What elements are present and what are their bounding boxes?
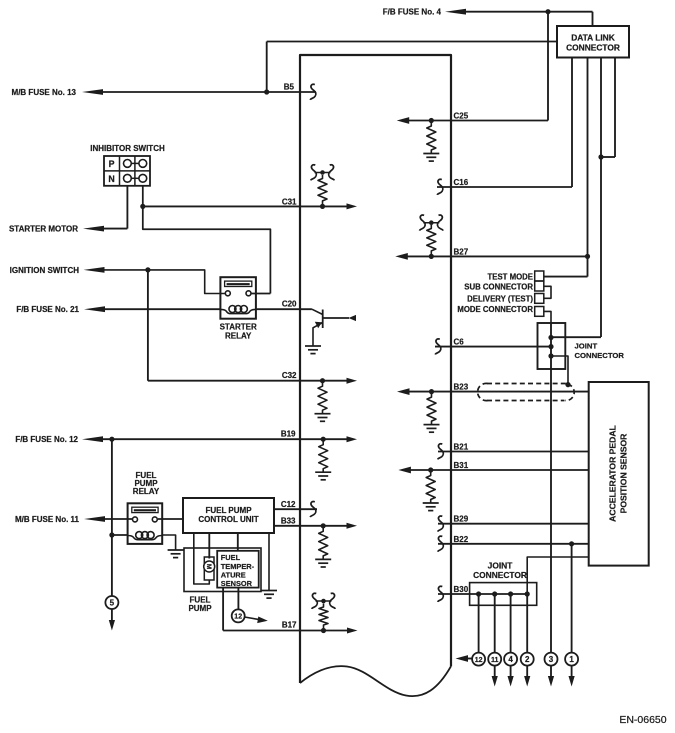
svg-text:M/B FUSE No. 13: M/B FUSE No. 13	[12, 88, 77, 97]
svg-text:4: 4	[508, 655, 513, 664]
svg-text:TEMPER-: TEMPER-	[221, 562, 255, 571]
svg-text:STARTER MOTOR: STARTER MOTOR	[9, 225, 78, 234]
svg-text:B29: B29	[454, 515, 469, 524]
svg-text:C6: C6	[454, 338, 465, 347]
svg-text:CONTROL UNIT: CONTROL UNIT	[198, 515, 258, 524]
svg-text:C31: C31	[282, 198, 297, 207]
svg-text:P: P	[109, 159, 115, 169]
svg-text:CONNECTOR: CONNECTOR	[566, 42, 620, 52]
svg-text:B21: B21	[454, 443, 469, 452]
svg-text:C12: C12	[281, 500, 296, 509]
svg-text:11: 11	[491, 657, 499, 664]
svg-text:C25: C25	[454, 112, 469, 121]
svg-text:1: 1	[569, 655, 574, 664]
svg-text:2: 2	[525, 655, 530, 664]
svg-text:EN-06650: EN-06650	[619, 714, 666, 726]
svg-text:B30: B30	[454, 585, 469, 594]
svg-text:12: 12	[234, 614, 242, 621]
svg-text:12: 12	[475, 657, 483, 664]
svg-text:B19: B19	[281, 430, 296, 439]
svg-text:C20: C20	[282, 300, 297, 309]
svg-text:F/B FUSE No. 21: F/B FUSE No. 21	[16, 305, 79, 314]
svg-text:B5: B5	[284, 82, 295, 91]
svg-text:JOINT: JOINT	[575, 342, 598, 351]
svg-text:M: M	[205, 564, 212, 569]
svg-text:B33: B33	[281, 516, 296, 525]
svg-text:FUEL: FUEL	[221, 553, 241, 562]
svg-text:FUEL: FUEL	[190, 595, 211, 604]
svg-text:CONNECTOR: CONNECTOR	[575, 351, 625, 360]
svg-text:STARTER: STARTER	[220, 323, 257, 332]
svg-text:CONNECTOR: CONNECTOR	[473, 570, 527, 580]
svg-text:B27: B27	[454, 247, 469, 256]
svg-text:5: 5	[110, 598, 115, 607]
svg-text:DATA LINK: DATA LINK	[571, 33, 615, 43]
svg-text:B17: B17	[282, 621, 297, 630]
svg-text:N: N	[108, 174, 114, 184]
svg-text:C16: C16	[454, 178, 469, 187]
svg-text:DELIVERY (TEST): DELIVERY (TEST)	[467, 295, 533, 304]
svg-text:RELAY: RELAY	[133, 487, 160, 496]
svg-text:3: 3	[549, 655, 554, 664]
svg-text:POSITION SENSOR: POSITION SENSOR	[619, 433, 629, 514]
svg-text:FUEL PUMP: FUEL PUMP	[205, 506, 252, 515]
svg-text:SUB CONNECTOR: SUB CONNECTOR	[464, 282, 533, 291]
svg-text:IGNITION SWITCH: IGNITION SWITCH	[10, 266, 80, 275]
svg-text:B22: B22	[454, 535, 469, 544]
svg-text:B31: B31	[454, 461, 469, 470]
svg-text:RELAY: RELAY	[225, 332, 252, 341]
svg-text:PUMP: PUMP	[188, 604, 212, 613]
svg-text:SENSOR: SENSOR	[221, 579, 253, 588]
svg-text:INHIBITOR SWITCH: INHIBITOR SWITCH	[90, 144, 165, 153]
svg-text:C32: C32	[282, 371, 297, 380]
svg-text:F/B FUSE No. 12: F/B FUSE No. 12	[15, 435, 78, 444]
svg-text:F/B FUSE No. 4: F/B FUSE No. 4	[383, 8, 442, 17]
svg-text:MODE CONNECTOR: MODE CONNECTOR	[457, 305, 533, 314]
svg-text:TEST MODE: TEST MODE	[488, 273, 533, 282]
svg-text:ACCELERATOR PEDAL: ACCELERATOR PEDAL	[608, 425, 618, 522]
svg-text:M/B FUSE No. 11: M/B FUSE No. 11	[15, 515, 80, 524]
svg-text:B23: B23	[454, 383, 469, 392]
